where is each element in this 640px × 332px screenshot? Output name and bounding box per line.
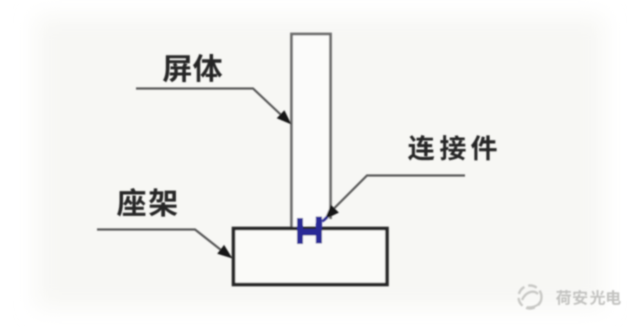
leader line for 屏体 label (136, 89, 287, 121)
screen panel (屏体) rectangle (292, 34, 331, 228)
arrowhead to base frame (217, 245, 232, 259)
label 座架 (base frame) (117, 188, 177, 217)
watermark logo circle (519, 286, 621, 309)
leader line for 座架 label (97, 230, 228, 256)
arrowhead to connector (325, 205, 339, 220)
label 屏体 (screen body) (163, 54, 222, 82)
connector (连接件) blue hardware (297, 216, 328, 245)
watermark text 荷安光电 (556, 290, 621, 305)
base frame (座架) rectangle (234, 229, 388, 285)
arrowhead to screen panel (277, 110, 292, 124)
label 连接件 (connector) (408, 135, 497, 161)
faint photo tint over drawing area (36, 16, 604, 308)
leader line for 连接件 label (330, 176, 465, 213)
